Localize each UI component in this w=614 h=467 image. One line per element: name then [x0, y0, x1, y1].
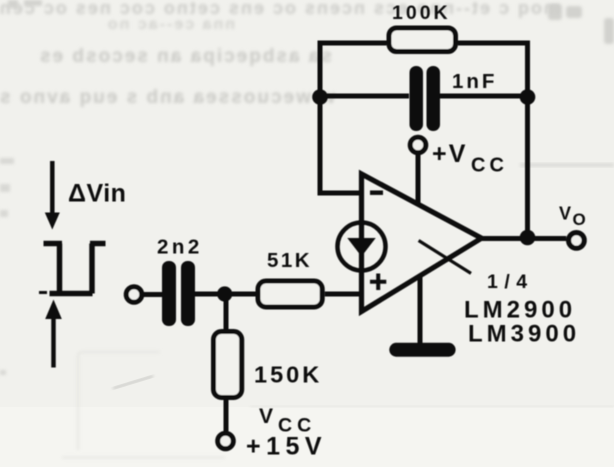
- faint streak bottom-left: [113, 375, 154, 390]
- current source circle: [338, 223, 386, 271]
- pulse waveform: [44, 244, 106, 294]
- current source arrowhead: [347, 238, 375, 257]
- svg-text:51K: 51K: [267, 249, 312, 272]
- node: input junction: [217, 286, 232, 301]
- wire: capacitor C1 row right segment: [440, 94, 528, 99]
- arrow up (Vin amplitude bottom): [51, 319, 56, 368]
- node: junction left feedback: [312, 89, 328, 105]
- resistor R1 100K body: [389, 28, 456, 52]
- svg-text:O: O: [573, 210, 586, 229]
- wire: output from op-amp tip: [481, 236, 566, 241]
- dark bleed blob top-right corner: [548, 4, 614, 44]
- svg-text:ΔVin: ΔVin: [68, 179, 126, 207]
- svg-text:w wecuossea anb s euq avno ss: w wecuossea anb s euq avno ssn: [0, 87, 336, 108]
- capacitor C1 1nF plate right: [427, 66, 441, 131]
- wire: top feedback horizontal left segment: [320, 43, 387, 193]
- svg-text:150K: 150K: [254, 362, 322, 388]
- faint ghost box outline bottom-left: [62, 352, 225, 458]
- capacitor C1 1nF plate left: [410, 66, 424, 131]
- bleed-through text from reverse page (mirrored, blurred): [0, 0, 560, 108]
- ground bar: [389, 343, 455, 357]
- node: output junction: [520, 230, 536, 246]
- op-amp minus input sign: [370, 190, 383, 195]
- lighter paper band bottom: [0, 407, 614, 467]
- svg-text:moq c et--nno ecs ncens oc: moq c et--nno ecs ncens oc ens cetno coc…: [0, 0, 560, 18]
- faint smudges left edge: [0, 158, 14, 375]
- capacitor C2 2n2 plate right: [181, 261, 195, 326]
- tick mark at pulse bottom level: [39, 291, 47, 294]
- op-amp U1 triangle: [362, 174, 482, 312]
- wire: ground vertical: [418, 277, 423, 344]
- wire: capacitor C1 row left segment: [320, 94, 409, 99]
- svg-text:LM2900: LM2900: [464, 297, 576, 324]
- faint streak right side: [520, 163, 614, 167]
- node: junction right feedback: [520, 89, 536, 105]
- svg-text:2n2: 2n2: [157, 235, 203, 258]
- resistor R2 51K body: [258, 281, 322, 307]
- svg-text:CC: CC: [471, 155, 508, 177]
- svg-text:V: V: [259, 405, 273, 428]
- wire: 51K to plus input: [325, 292, 361, 297]
- wire: junction down to 150K: [224, 294, 229, 329]
- capacitor C2 2n2 plate left: [162, 261, 176, 326]
- resistor R3 150K body: [214, 332, 242, 398]
- svg-text:100K: 100K: [392, 2, 451, 24]
- op-amp plus input sign: [370, 274, 386, 291]
- wire: 150K to Vcc terminal: [224, 400, 229, 431]
- terminal Vcc +15V circle: [218, 433, 234, 449]
- svg-text:nna ce--ac no: nna ce--ac no: [106, 16, 235, 33]
- dark cut-off marks top-left corner: [8, 0, 42, 8]
- terminal Vo circle: [569, 233, 585, 249]
- svg-text:V: V: [559, 204, 571, 224]
- svg-text:sa asbqecipa an secosb es: sa asbqecipa an secosb es: [38, 46, 332, 67]
- wire: capacitor to 51K resistor: [194, 292, 256, 297]
- svg-text:+15V: +15V: [246, 433, 327, 461]
- svg-text:+V: +V: [432, 140, 468, 168]
- arrow down (Vin amplitude top): [50, 161, 55, 215]
- pointer slash to part label: [419, 241, 471, 274]
- terminal +Vcc circle: [410, 137, 426, 153]
- svg-text:LM3900: LM3900: [468, 321, 580, 348]
- wire: +Vcc vertical into op-amp: [416, 155, 421, 204]
- wire: top feedback horizontal right segment + right vertical: [458, 43, 528, 239]
- terminal input circle: [126, 287, 142, 303]
- svg-text:1nF: 1nF: [452, 70, 497, 93]
- svg-text:1/4: 1/4: [487, 271, 534, 293]
- wire: input terminal to capacitor: [144, 292, 163, 297]
